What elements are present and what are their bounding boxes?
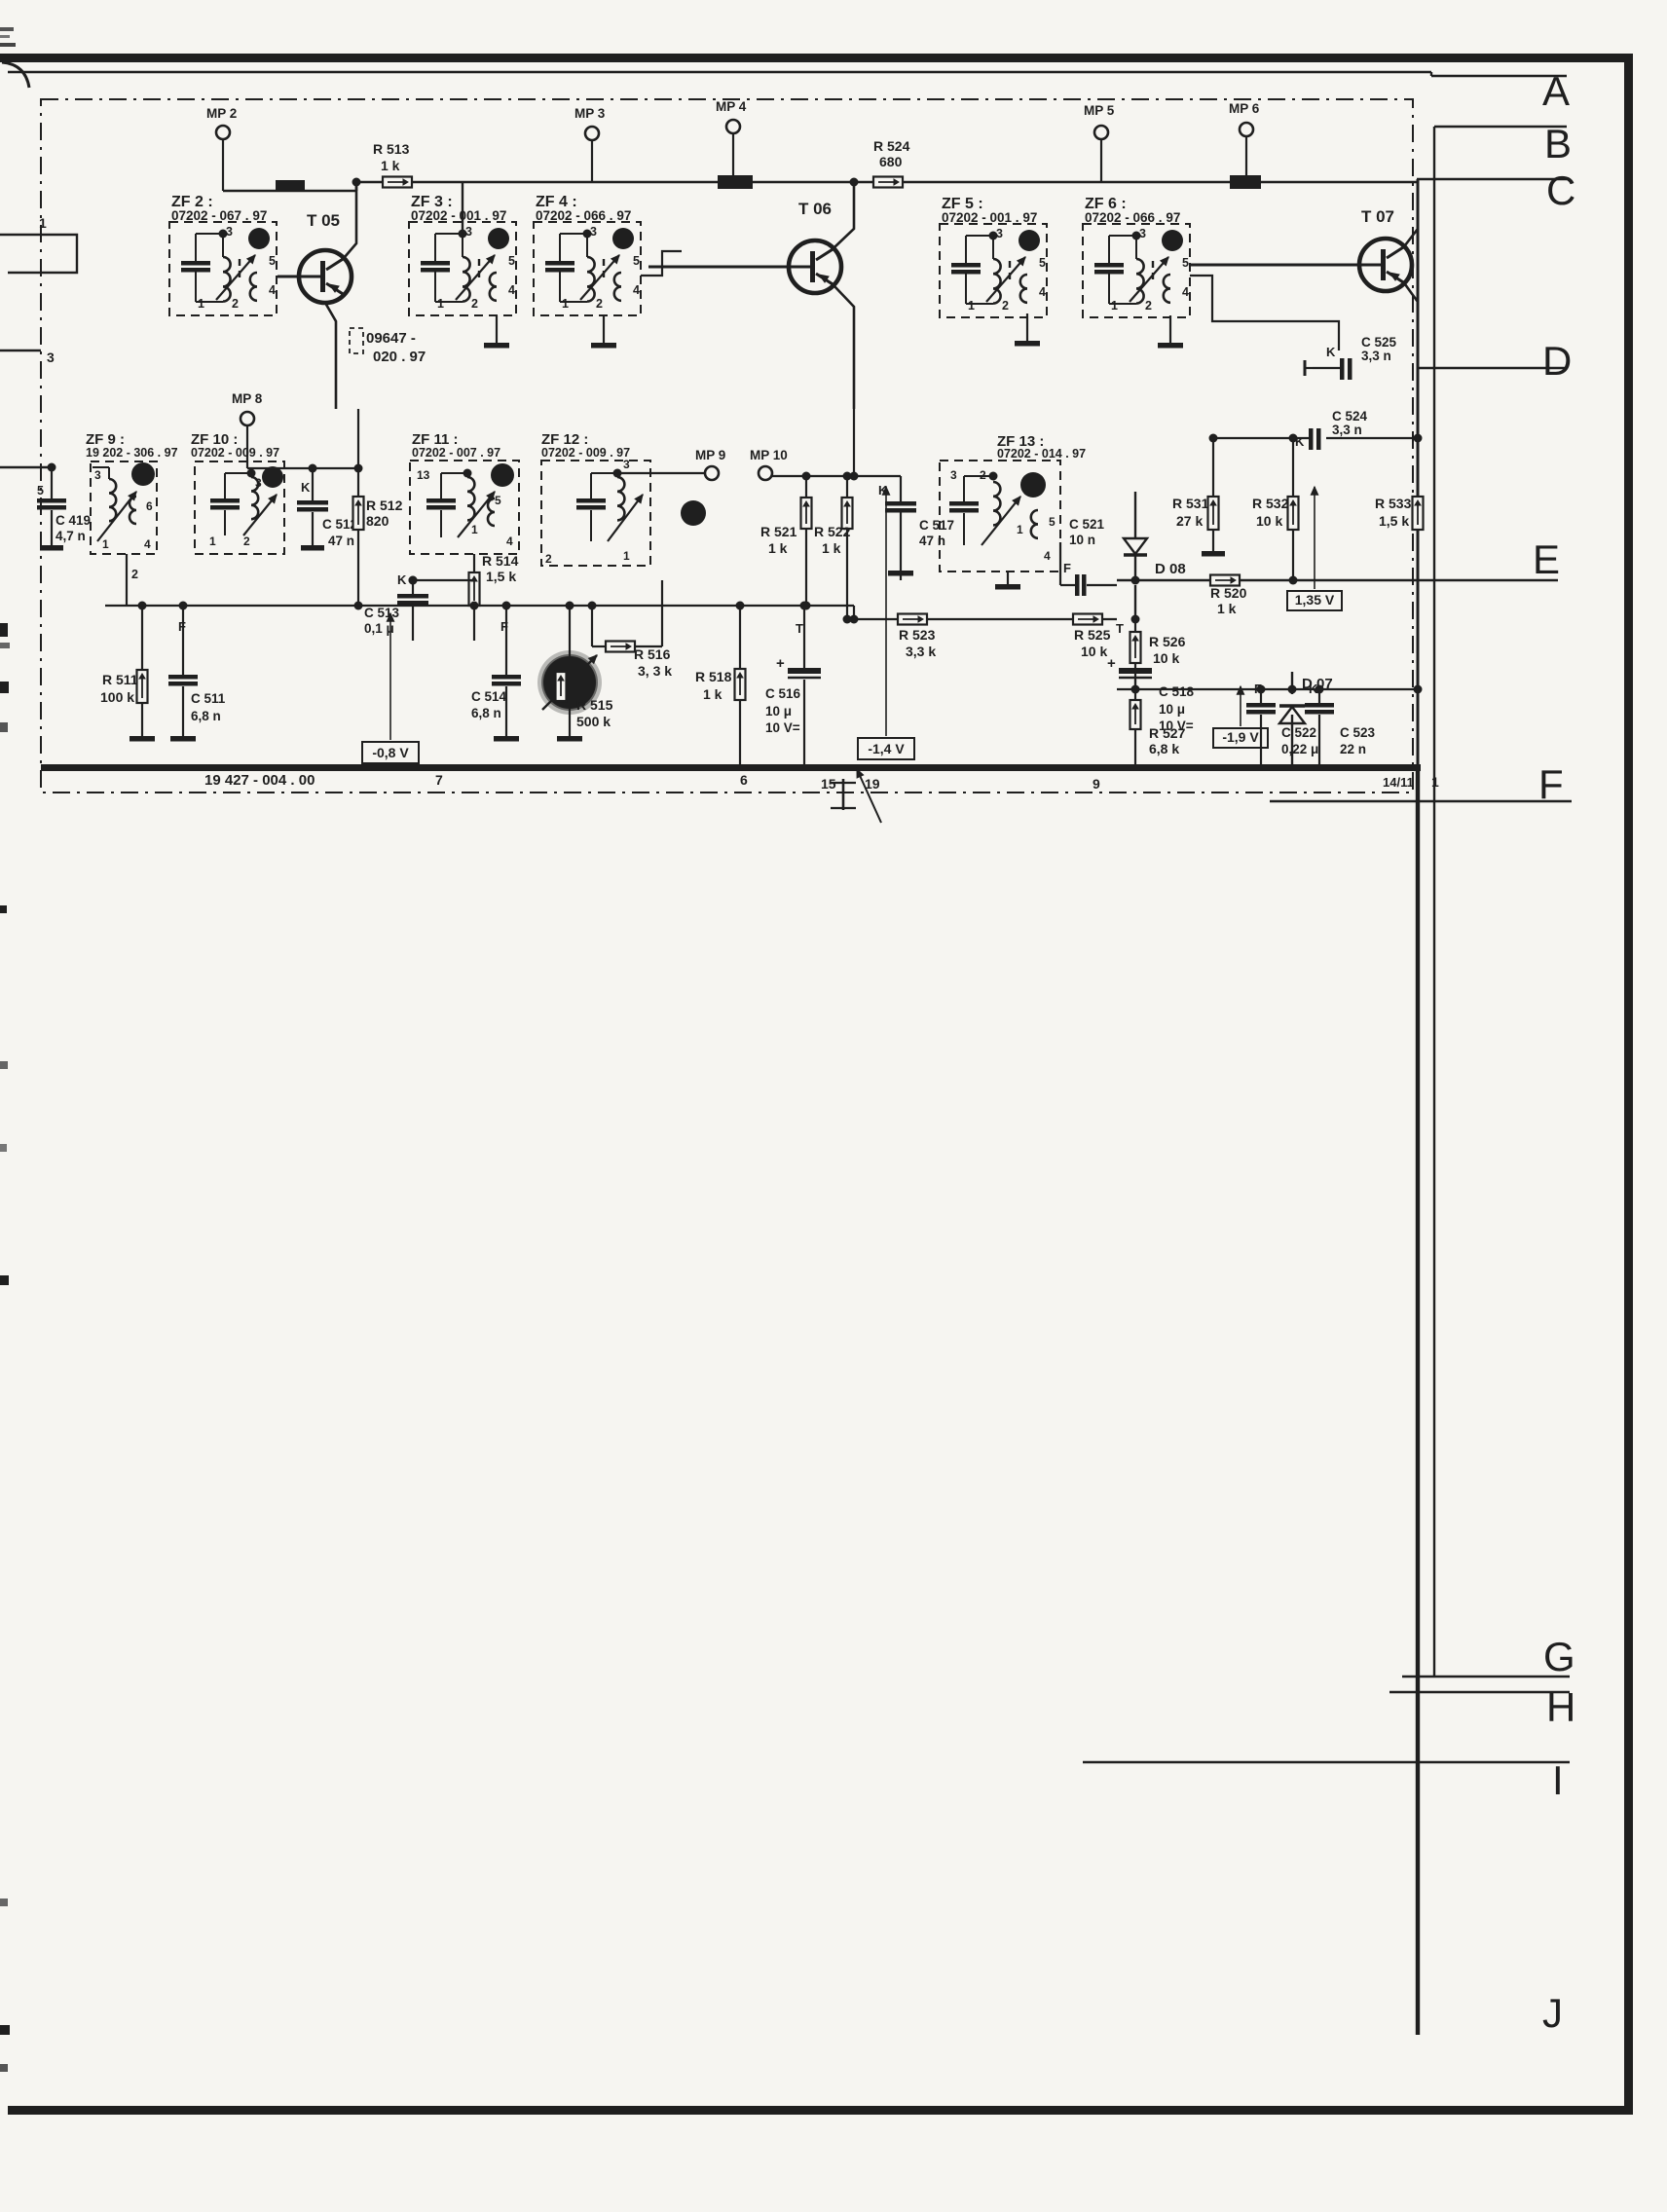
svg-text:9: 9: [1093, 776, 1100, 792]
svg-text:4,7 n: 4,7 n: [56, 529, 86, 543]
svg-text:07202 - 001 . 97: 07202 - 001 . 97: [411, 208, 506, 223]
svg-text:3,3 k: 3,3 k: [906, 644, 936, 659]
svg-text:3,3 n: 3,3 n: [1332, 423, 1362, 437]
svg-text:R 523: R 523: [899, 627, 936, 643]
svg-text:K: K: [397, 572, 407, 587]
capacitor C525 on D line: [1340, 358, 1345, 380]
bus line F: [1270, 800, 1572, 802]
test point MP8: [241, 412, 254, 425]
resistor R526: [1130, 632, 1141, 663]
svg-text:C 419: C 419: [56, 513, 91, 528]
svg-text:10 μ: 10 μ: [765, 704, 792, 719]
svg-text:F: F: [1538, 761, 1564, 807]
svg-text:3: 3: [623, 458, 630, 471]
bus line E: [1117, 579, 1558, 581]
svg-text:07202 - 014 . 97: 07202 - 014 . 97: [997, 447, 1086, 461]
svg-text:G: G: [1543, 1634, 1575, 1679]
capacitor C512: [297, 500, 328, 505]
svg-text:07202 - 009 . 97: 07202 - 009 . 97: [541, 446, 630, 460]
svg-text:MP 2: MP 2: [206, 106, 237, 121]
bus line H: [1389, 1691, 1570, 1693]
svg-text:R 512: R 512: [366, 498, 403, 513]
transistor T07: [1359, 239, 1412, 291]
svg-text:1: 1: [1111, 299, 1118, 313]
capacitor C518 elco: [1119, 668, 1152, 674]
svg-text:10 k: 10 k: [1256, 513, 1282, 529]
test point MP2: [216, 126, 230, 139]
svg-text:A: A: [1542, 68, 1570, 114]
svg-text:I: I: [1552, 1757, 1564, 1803]
svg-text:C 517: C 517: [919, 518, 954, 533]
svg-text:C 525: C 525: [1361, 335, 1397, 350]
svg-text:MP 9: MP 9: [695, 448, 725, 462]
capacitor C419: [37, 498, 66, 503]
svg-text:07202 - 009 . 97: 07202 - 009 . 97: [191, 446, 279, 460]
resistor R511: [137, 670, 148, 703]
wire T06 collector: [834, 182, 854, 247]
transistor T06: [789, 240, 841, 293]
svg-text:R 522: R 522: [814, 524, 851, 539]
wire C518 top: [1134, 585, 1136, 619]
test point MP3: [585, 127, 599, 140]
IF transformer ZF12: [541, 461, 650, 566]
wire T05 collector up: [345, 182, 356, 257]
main trunk vertical right: [1417, 179, 1420, 767]
svg-text:4: 4: [506, 535, 513, 548]
IF transformer ZF4: [534, 222, 641, 315]
test point MP5: [1094, 126, 1108, 139]
IF transformer ZF2: [169, 222, 277, 315]
svg-text:R 532: R 532: [1252, 496, 1289, 511]
wire C513/R516 node: [413, 579, 474, 581]
svg-text:27 k: 27 k: [1176, 513, 1203, 529]
svg-text:1: 1: [623, 549, 630, 563]
IF transformer ZF11: [410, 461, 519, 554]
capacitor C521: [1075, 574, 1080, 596]
svg-text:14/11: 14/11: [1383, 775, 1414, 790]
svg-text:2: 2: [1002, 299, 1009, 313]
svg-text:R 515: R 515: [576, 697, 613, 713]
svg-text:22 n: 22 n: [1340, 742, 1366, 756]
svg-text:B: B: [1544, 121, 1572, 166]
svg-text:T: T: [1116, 621, 1124, 636]
junction node at R513 left: [352, 178, 361, 187]
arrow 1.35V: [1314, 487, 1315, 589]
svg-text:1: 1: [437, 297, 444, 311]
svg-text:2: 2: [471, 297, 478, 311]
svg-text:2: 2: [980, 468, 986, 482]
svg-text:T 05: T 05: [307, 211, 340, 230]
resistor R524: [873, 177, 903, 188]
capacitor C524: [1309, 428, 1314, 450]
bus line C: [1417, 178, 1567, 180]
wire MP10 right: [772, 475, 854, 477]
svg-text:D 08: D 08: [1155, 561, 1186, 577]
wire MP8 row horizontal: [247, 467, 313, 469]
svg-text:C 513: C 513: [364, 606, 400, 620]
bias rail (y622): [105, 605, 854, 607]
svg-text:1,35 V: 1,35 V: [1295, 592, 1335, 608]
junction blob at MP6: [1230, 175, 1261, 189]
IF transformer ZF10: [195, 461, 284, 554]
rail 636 segment: [854, 618, 1117, 620]
svg-text:19 202 - 306 . 97: 19 202 - 306 . 97: [86, 446, 178, 460]
svg-text:0,1 μ: 0,1 μ: [364, 621, 394, 636]
svg-text:09647 -: 09647 -: [366, 330, 416, 347]
svg-text:R 527: R 527: [1149, 725, 1186, 741]
wire entry 1 (top left): [0, 235, 77, 273]
page border top thick line: [8, 54, 1632, 62]
test point MP4: [726, 120, 740, 133]
wire top row horizontal: [223, 190, 356, 193]
svg-text:2: 2: [243, 535, 250, 548]
wire D08 top: [1134, 492, 1136, 526]
ZF4 ground: [603, 315, 605, 343]
svg-text:R 526: R 526: [1149, 634, 1186, 649]
svg-text:1 k: 1 k: [703, 686, 722, 702]
wire T05 collector to top wire: [462, 182, 463, 235]
svg-text:10 k: 10 k: [1153, 650, 1179, 666]
ZF3 secondary ground: [496, 315, 498, 343]
IF unit board outline (dash-dot): [41, 99, 1413, 793]
svg-text:19 427 - 004 . 00: 19 427 - 004 . 00: [204, 772, 315, 789]
test point MP6: [1240, 123, 1253, 136]
wire entry 3: [0, 350, 41, 351]
svg-text:2: 2: [1145, 299, 1152, 313]
svg-text:1: 1: [471, 523, 478, 536]
svg-text:10 n: 10 n: [1069, 533, 1095, 547]
resistor R520: [1210, 575, 1240, 586]
svg-text:020 . 97: 020 . 97: [373, 349, 426, 365]
svg-text:T 07: T 07: [1361, 207, 1394, 226]
bus line G: [1402, 1676, 1570, 1677]
svg-text:R 516: R 516: [634, 646, 671, 662]
wire R522 bottom rail 636: [843, 615, 852, 624]
svg-text:4: 4: [144, 537, 151, 551]
svg-text:10 V=: 10 V=: [765, 720, 800, 735]
svg-text:6,8 n: 6,8 n: [471, 706, 501, 720]
svg-text:R 533: R 533: [1375, 496, 1412, 511]
capacitor C511: [168, 675, 198, 680]
svg-text:13: 13: [417, 468, 430, 482]
voltage label -1.9V: [1213, 728, 1268, 748]
svg-text:C 518: C 518: [1159, 684, 1195, 699]
svg-text:F: F: [1063, 561, 1071, 575]
wire entry to ZF9: [0, 466, 52, 468]
svg-text:47 n: 47 n: [328, 534, 354, 548]
coil ZF9 secondary: [130, 497, 136, 524]
capacitor C523: [1305, 703, 1334, 708]
svg-text:1: 1: [1431, 774, 1439, 790]
svg-text:5: 5: [1039, 256, 1046, 270]
capacitor C514: [492, 675, 521, 680]
wire -0.8V arrow up: [389, 613, 391, 740]
page border right: [1624, 54, 1633, 2113]
wire R516 right: [635, 645, 662, 647]
wire ZF12 pin3 to MP9: [617, 472, 705, 474]
svg-text:4: 4: [1182, 285, 1189, 299]
svg-text:R 511: R 511: [102, 672, 138, 687]
bus line I: [1083, 1761, 1570, 1763]
ZF6 ground: [1169, 315, 1171, 343]
wire 450 rail with C524: [1213, 437, 1311, 439]
scan artifact left edge marks: [0, 27, 14, 31]
svg-text:R 513: R 513: [373, 141, 410, 157]
svg-text:10 k: 10 k: [1081, 644, 1107, 659]
svg-text:6: 6: [146, 499, 153, 513]
resistor R512: [353, 497, 364, 530]
resistor R513: [383, 177, 412, 188]
svg-text:1,5 k: 1,5 k: [486, 569, 516, 584]
svg-text:5: 5: [633, 254, 640, 268]
svg-text:4: 4: [508, 283, 515, 297]
svg-text:R 525: R 525: [1074, 627, 1111, 643]
wire MP10 row to C517: [854, 475, 901, 477]
svg-text:6: 6: [740, 772, 748, 788]
svg-text:680: 680: [879, 154, 903, 169]
voltage label -1.4V: [858, 738, 914, 759]
svg-text:07202 - 007 . 97: 07202 - 007 . 97: [412, 446, 500, 460]
svg-text:K: K: [1326, 345, 1336, 359]
diode D08: [1124, 538, 1147, 554]
svg-text:3: 3: [94, 468, 101, 482]
svg-text:100 k: 100 k: [100, 689, 134, 705]
svg-text:MP 6: MP 6: [1229, 101, 1260, 116]
svg-text:1: 1: [198, 297, 204, 311]
wire across top: [356, 181, 1418, 184]
svg-text:2: 2: [545, 552, 552, 566]
svg-text:1: 1: [39, 215, 47, 231]
diode D07: [1279, 707, 1305, 723]
svg-text:4: 4: [633, 283, 640, 297]
svg-text:R 531: R 531: [1172, 496, 1209, 511]
svg-text:3: 3: [47, 350, 55, 365]
ZF5 ground: [1026, 313, 1028, 341]
resistor R522: [842, 498, 853, 529]
svg-text:T: T: [796, 621, 803, 636]
wire R512 top to main: [357, 409, 359, 468]
bus line A: [8, 71, 1431, 73]
svg-text:5: 5: [269, 254, 276, 268]
junction dots on bias rail: [354, 602, 363, 610]
svg-text:R 518: R 518: [695, 669, 732, 684]
IF transformer ZF5: [940, 224, 1047, 317]
wire 708 rail: [1117, 688, 1418, 690]
voltage label -0.8V: [362, 742, 419, 763]
svg-text:J: J: [1542, 1990, 1563, 2036]
svg-text:MP 10: MP 10: [750, 448, 788, 462]
svg-text:4: 4: [1044, 549, 1051, 563]
svg-text:2: 2: [131, 568, 138, 581]
svg-text:2: 2: [232, 297, 239, 311]
IF transformer ZF9: [91, 461, 157, 554]
svg-text:500 k: 500 k: [576, 714, 611, 729]
svg-text:07202 - 066 . 97: 07202 - 066 . 97: [1085, 210, 1180, 225]
resistor R514: [469, 572, 480, 606]
svg-text:5: 5: [1182, 256, 1189, 270]
svg-text:1: 1: [968, 299, 975, 313]
resistor R533: [1413, 497, 1424, 530]
svg-text:MP 3: MP 3: [574, 106, 606, 121]
wire T06 emitter down: [834, 286, 854, 409]
capacitor C517: [885, 501, 916, 506]
svg-text:1: 1: [1017, 523, 1023, 536]
svg-text:C 522: C 522: [1281, 725, 1316, 740]
svg-text:C 523: C 523: [1340, 725, 1376, 740]
svg-text:3: 3: [226, 225, 233, 239]
resistor R527: [1130, 700, 1141, 729]
svg-text:1 k: 1 k: [822, 540, 841, 556]
wire ZF4 secondary to C514 column: [641, 251, 682, 276]
svg-text:R 514: R 514: [482, 553, 519, 569]
resistor R521: [801, 498, 812, 529]
IF board bottom bus (thick): [41, 764, 1421, 771]
resistor R523: [898, 614, 927, 625]
svg-text:5: 5: [508, 254, 515, 268]
svg-text:K: K: [301, 480, 311, 495]
svg-text:07202 - 066 . 97: 07202 - 066 . 97: [536, 208, 631, 223]
svg-text:3, 3 k: 3, 3 k: [638, 663, 672, 679]
arrow -1.9V: [1240, 686, 1241, 726]
svg-text:3: 3: [1139, 227, 1146, 240]
svg-text:5: 5: [1049, 515, 1056, 529]
page border bottom thick line: [8, 2106, 1633, 2115]
junction node T06 collector: [850, 178, 859, 187]
svg-text:3,3 n: 3,3 n: [1361, 349, 1391, 363]
ZF13 ground: [1007, 571, 1009, 584]
junction blob at MP4: [718, 175, 753, 189]
capacitor C516 elco: [788, 668, 821, 674]
svg-text:1 k: 1 k: [381, 158, 400, 173]
wire vertical from B to G: [1433, 127, 1435, 1677]
svg-text:5: 5: [37, 484, 44, 498]
svg-text:0,22 μ: 0,22 μ: [1281, 742, 1318, 756]
svg-text:H: H: [1546, 1684, 1575, 1730]
svg-text:3: 3: [996, 227, 1003, 240]
svg-text:1,5 k: 1,5 k: [1379, 513, 1409, 529]
svg-text:1: 1: [562, 297, 569, 311]
IF transformer ZF3: [409, 222, 516, 315]
bus line D: [1419, 367, 1567, 369]
svg-text:C 524: C 524: [1332, 409, 1368, 424]
IF transformer ZF6: [1083, 224, 1190, 317]
svg-text:E: E: [1533, 536, 1560, 582]
svg-text:820: 820: [366, 513, 389, 529]
svg-text:C 511: C 511: [191, 691, 226, 706]
module note 09647-020.97 (top): [350, 328, 363, 353]
resistor R532: [1288, 497, 1299, 530]
bus line B: [1434, 126, 1567, 128]
svg-text:3: 3: [255, 476, 262, 490]
wire R516 left: [592, 645, 606, 647]
svg-text:K: K: [1295, 434, 1305, 449]
wire ZF9 pin2 down: [126, 554, 128, 606]
svg-text:R 524: R 524: [873, 138, 910, 154]
voltage label 1.35V: [1287, 591, 1342, 610]
svg-text:3: 3: [465, 225, 472, 239]
svg-text:T 06: T 06: [798, 200, 832, 218]
svg-text:5: 5: [495, 494, 501, 507]
svg-text:R 521: R 521: [760, 524, 797, 539]
wire T07 emitter down: [1405, 284, 1418, 368]
resistor R517: [556, 672, 567, 701]
svg-text:6,8 k: 6,8 k: [1149, 741, 1179, 756]
capacitor C513: [397, 594, 428, 599]
resistor R525: [1073, 614, 1102, 625]
resistor R516: [606, 642, 635, 652]
svg-text:C 514: C 514: [471, 689, 507, 704]
svg-text:47 n: 47 n: [919, 534, 945, 548]
svg-text:MP 4: MP 4: [716, 99, 747, 114]
transistor T05: [299, 250, 352, 303]
resistor R518: [735, 669, 746, 700]
svg-text:MP 5: MP 5: [1084, 103, 1115, 118]
svg-text:7: 7: [435, 772, 443, 788]
svg-text:4: 4: [269, 283, 276, 297]
potentiometer R515 (blob): [537, 650, 602, 715]
svg-text:4: 4: [1039, 285, 1046, 299]
test point MP9: [705, 466, 719, 480]
svg-text:07202 - 067 . 97: 07202 - 067 . 97: [171, 208, 267, 223]
svg-text:1 k: 1 k: [1217, 601, 1237, 616]
svg-text:-1,4 V: -1,4 V: [868, 741, 905, 756]
capacitor C522: [1246, 703, 1276, 708]
svg-text:1 k: 1 k: [768, 540, 788, 556]
svg-text:1: 1: [102, 537, 109, 551]
svg-text:10 μ: 10 μ: [1159, 702, 1185, 717]
svg-text:-0,8 V: -0,8 V: [372, 745, 409, 760]
svg-text:+: +: [1107, 655, 1116, 672]
svg-text:MP 8: MP 8: [232, 391, 263, 406]
svg-text:C 516: C 516: [765, 686, 801, 701]
svg-text:1: 1: [209, 535, 216, 548]
svg-text:D: D: [1542, 338, 1572, 384]
svg-text:C 521: C 521: [1069, 517, 1105, 532]
test point MP10: [759, 466, 772, 480]
svg-text:3: 3: [950, 468, 957, 482]
svg-text:6,8 n: 6,8 n: [191, 709, 221, 723]
adjustment arrow to R515 note: [857, 769, 881, 823]
svg-text:2: 2: [596, 297, 603, 311]
svg-text:-1,9 V: -1,9 V: [1222, 729, 1259, 745]
IF transformer ZF13: [940, 461, 1060, 571]
svg-text:C: C: [1546, 167, 1575, 213]
svg-text:+: +: [776, 655, 785, 672]
svg-text:07202 - 001 . 97: 07202 - 001 . 97: [942, 210, 1037, 225]
arrow -1.4V up: [885, 487, 887, 736]
svg-text:3: 3: [590, 225, 597, 239]
svg-text:R 520: R 520: [1210, 585, 1247, 601]
wire ZF6 secondary right: [1190, 276, 1339, 350]
wire T07 collector to C bus: [1405, 179, 1418, 245]
wire T05 emitter down: [325, 303, 336, 409]
resistor R531: [1208, 497, 1219, 530]
